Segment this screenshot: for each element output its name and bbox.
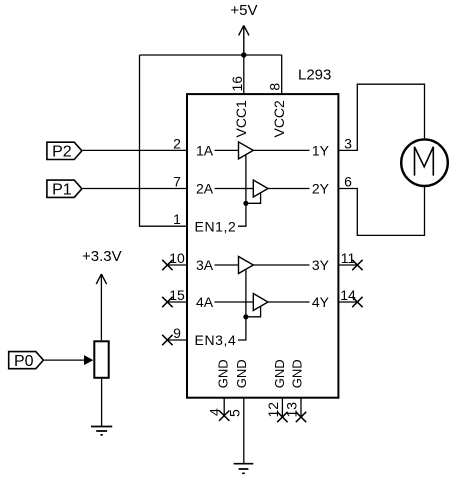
no-connect pin 15: [162, 297, 187, 307]
svg-text:3A: 3A: [196, 257, 214, 273]
svg-text:7: 7: [173, 174, 181, 190]
no-connect pin 11: [338, 260, 362, 270]
wiper arrow: [84, 355, 93, 365]
svg-text:2A: 2A: [196, 181, 214, 197]
svg-text:EN3,4: EN3,4: [195, 332, 237, 348]
ground under pin 5: [234, 464, 254, 474]
ground under potentiometer: [91, 427, 112, 435]
buffer A4: [253, 294, 268, 311]
wire +5V down-left to pin 1 (EN1,2): [140, 55, 188, 226]
flag P2: [47, 142, 82, 159]
wire buffer A1 to 1Y: [253, 149, 309, 151]
wire potentiometer to ground: [101, 379, 103, 427]
svg-text:P1: P1: [52, 182, 72, 199]
svg-text:4A: 4A: [196, 294, 214, 310]
svg-text:10: 10: [169, 250, 185, 266]
wire P2 to pin 2 (1A): [83, 149, 188, 151]
motor M1: [401, 139, 448, 186]
wire +5V rail horizontal: [140, 54, 282, 56]
no-connect pin 14: [338, 297, 362, 307]
svg-text:3: 3: [344, 135, 352, 151]
wire pin 5 to ground: [243, 398, 245, 464]
svg-text:3Y: 3Y: [312, 257, 330, 273]
no-connect pin 9: [162, 335, 187, 345]
wire +5V to pin 8 (VCC2): [281, 55, 283, 95]
wire buffer A3 to 3Y: [253, 264, 309, 266]
no-connect pin 12: [277, 398, 287, 423]
svg-text:13: 13: [284, 402, 300, 418]
svg-text:VCC1: VCC1: [233, 100, 249, 138]
svg-text:8: 8: [267, 83, 283, 91]
junction enable 3,4: [243, 314, 248, 319]
svg-text:GND: GND: [216, 359, 231, 388]
wire pin 6 to motor bottom: [338, 187, 424, 235]
svg-text:VCC2: VCC2: [271, 100, 287, 138]
wire 3A to buffer: [215, 264, 239, 266]
op-amp U1 L293 body: [187, 94, 338, 398]
potentiometer R1 body: [94, 341, 108, 378]
svg-text:L293: L293: [298, 67, 331, 84]
svg-text:1Y: 1Y: [312, 143, 330, 159]
svg-text:+5V: +5V: [230, 2, 257, 19]
flag P0: [9, 352, 44, 369]
svg-text:GND: GND: [272, 359, 287, 388]
wire buffer A2 to 2Y: [268, 188, 310, 190]
svg-text:1: 1: [173, 211, 181, 227]
svg-text:9: 9: [173, 325, 181, 341]
svg-text:P2: P2: [52, 144, 72, 161]
wire enable branch to buffer A4: [246, 306, 261, 316]
junction enable 1,2: [243, 201, 248, 206]
svg-text:5: 5: [226, 409, 242, 417]
wire 2A to buffer: [215, 188, 254, 190]
svg-text:15: 15: [169, 287, 185, 303]
wire pin 3 to motor top: [338, 84, 424, 150]
buffer A3: [239, 257, 254, 274]
svg-text:6: 6: [344, 174, 352, 190]
svg-text:+3.3V: +3.3V: [82, 248, 122, 265]
wire EN1,2 enable line: [238, 155, 246, 226]
svg-text:14: 14: [340, 287, 356, 303]
buffer A1: [239, 142, 254, 159]
buffer A2: [253, 180, 268, 197]
power +5V arrow symbol: [239, 25, 249, 55]
svg-text:GND: GND: [234, 359, 249, 388]
wire EN3,4 enable line: [238, 269, 246, 340]
svg-text:4Y: 4Y: [312, 294, 330, 310]
flag P1: [47, 180, 82, 197]
svg-text:EN1,2: EN1,2: [195, 218, 237, 234]
wire +3.3V to potentiometer: [100, 274, 102, 340]
wire buffer A4 to 4Y: [268, 301, 310, 303]
svg-text:12: 12: [265, 402, 281, 418]
svg-text:P0: P0: [14, 353, 34, 370]
motor M letter: [415, 147, 434, 176]
wire 4A to buffer: [215, 301, 254, 303]
junction +5V node: [241, 52, 246, 57]
no-connect pin 4: [219, 398, 229, 421]
no-connect pin 13: [296, 398, 306, 423]
svg-text:2Y: 2Y: [312, 181, 330, 197]
wire +5V to pin 16 (VCC1): [243, 55, 245, 95]
svg-text:11: 11: [341, 250, 356, 266]
wire P1 to pin 7 (2A): [83, 188, 188, 190]
svg-text:1A: 1A: [196, 143, 214, 159]
wire enable branch to buffer A2: [246, 193, 261, 203]
power +3.3V arrow symbol: [96, 274, 106, 284]
no-connect pin 10: [162, 260, 187, 270]
wire P0 to wiper: [44, 359, 84, 361]
svg-text:GND: GND: [290, 359, 305, 388]
svg-text:16: 16: [229, 76, 245, 92]
wire 1A to buffer: [215, 149, 239, 151]
svg-text:2: 2: [173, 135, 181, 151]
